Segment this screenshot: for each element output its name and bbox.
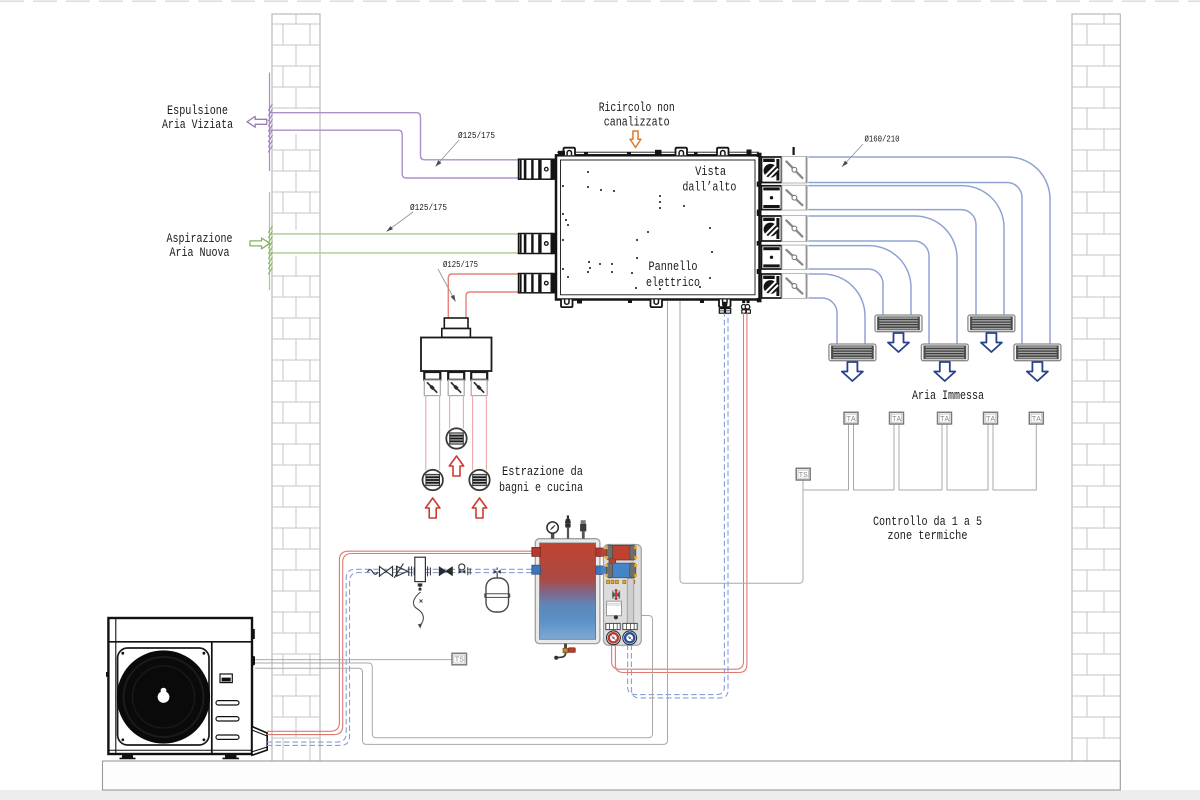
extract valve bathroom 1 xyxy=(423,470,443,490)
zone thermostat TA5 xyxy=(1029,412,1043,424)
supply duct 2 (blue) xyxy=(808,186,1004,315)
AHU top mounting brackets xyxy=(564,148,729,156)
flow meter cold (blue) xyxy=(623,631,637,645)
thermostat bus TS2-TA1 xyxy=(803,424,849,490)
shut-off valve V1 xyxy=(380,566,393,577)
distribution box outlet 3 xyxy=(471,372,487,396)
supply air arrow 2 (blue, down) xyxy=(888,333,909,352)
tank air vent valve xyxy=(565,515,571,538)
svg-text:Espulsione: Espulsione xyxy=(167,103,228,118)
supply air arrow 3 (blue, down) xyxy=(934,362,955,381)
AHU top tabs xyxy=(558,147,795,155)
supply duct 3 (blue) xyxy=(808,216,957,344)
extract branch duct lines xyxy=(426,395,487,470)
extract air arrow left (red, up) xyxy=(426,498,440,518)
supply grille 3 xyxy=(921,344,968,361)
supply grille 2 xyxy=(875,315,922,332)
svg-text:zone termiche: zone termiche xyxy=(888,528,968,543)
bottom gray band xyxy=(0,790,1200,800)
flange pair A xyxy=(412,566,415,576)
flex connector (tilde) xyxy=(368,570,378,575)
supply air arrow 4 (blue, down) xyxy=(981,333,1002,352)
thermostat TS2 (zones) xyxy=(796,468,810,480)
espulsione arrow (purple, left) xyxy=(247,116,267,127)
ricircolo arrow (orange, down) xyxy=(630,131,641,148)
extraction distribution box xyxy=(421,318,492,371)
svg-text:TA: TA xyxy=(846,416,856,424)
shut-off valve V2 (closed) xyxy=(439,567,452,576)
leader line supply duct label xyxy=(842,144,863,167)
tank right ports xyxy=(596,548,604,574)
extraction duct (red) to distribution box xyxy=(448,274,518,318)
ceiling dashed line xyxy=(0,0,1200,2)
svg-text:TS: TS xyxy=(799,472,809,480)
AHU top flange line xyxy=(557,151,759,153)
leader line exhaust duct label xyxy=(436,140,460,167)
heat pump right-side fittings xyxy=(106,629,255,677)
AHU rivet dots xyxy=(562,167,717,290)
AHU bottom hydronic bracket with port xyxy=(719,300,731,314)
heat pump side bracket xyxy=(252,727,267,756)
svg-text:dall’alto: dall’alto xyxy=(682,179,736,194)
svg-text:Aria Nuova: Aria Nuova xyxy=(170,245,230,260)
filter blow-down and drain hose xyxy=(413,583,423,628)
control wire AHU to TS2 xyxy=(680,301,803,583)
svg-text:Ø160/210: Ø160/210 xyxy=(865,134,900,145)
AHU supply connector 3 with damper xyxy=(757,212,808,246)
svg-text:Pannello: Pannello xyxy=(649,259,698,274)
fresh air duct (green) to wall xyxy=(270,234,519,253)
check valve xyxy=(394,564,409,578)
pump group union nuts xyxy=(606,623,637,629)
flow meter hot (red) xyxy=(607,631,621,645)
AHU exhaust connector (left top) xyxy=(519,159,556,180)
heat pump fan xyxy=(117,650,210,743)
svg-text:TA: TA xyxy=(892,416,902,424)
tank drain valve xyxy=(554,644,575,660)
expansion vessel xyxy=(484,567,510,612)
extract valve kitchen (middle) xyxy=(446,428,466,448)
supply duct 1 (blue) xyxy=(808,157,1050,344)
AHU bottom tabs xyxy=(577,300,704,304)
svg-text:bagni e cucina: bagni e cucina xyxy=(499,480,583,495)
AHU coil return pipe (blue dashed pair) xyxy=(628,313,728,698)
tank left ports xyxy=(532,547,541,574)
svg-text:elettrico: elettrico xyxy=(646,275,700,290)
left brick wall xyxy=(272,14,320,761)
pump group right riser xyxy=(627,579,633,625)
AHU bottom mounting brackets xyxy=(561,300,662,308)
zone thermostat TA2 xyxy=(890,412,904,424)
AHU extract connector (left bottom) xyxy=(519,273,556,294)
right brick wall xyxy=(1072,14,1120,761)
extract valve bathroom 2 xyxy=(469,470,489,490)
svg-text:Ricircolo non: Ricircolo non xyxy=(599,100,675,115)
zone thermostat TA3 xyxy=(938,412,952,424)
control wire heat pump to TS1 xyxy=(255,659,452,661)
motorised valve xyxy=(459,564,471,575)
zone thermostat TA1 xyxy=(844,412,858,424)
heat pump outdoor unit xyxy=(108,618,252,754)
pump group circulator body xyxy=(607,601,622,619)
svg-text:Vista: Vista xyxy=(695,164,726,179)
zone thermostat TA4 xyxy=(984,412,998,424)
thermostat bus TA3-TA4 xyxy=(947,424,988,490)
control wire heat pump to AHU xyxy=(255,301,668,744)
pump group unions (yellow) xyxy=(607,580,635,583)
svg-text:canalizzato: canalizzato xyxy=(604,115,670,130)
heat pump label plate xyxy=(220,674,232,683)
supply grille 5 xyxy=(1014,344,1061,361)
AHU coil flow pipe (red pair) xyxy=(612,313,747,673)
svg-text:TS: TS xyxy=(455,657,465,665)
AHU supply connector 5 with damper xyxy=(757,270,808,303)
leader line fresh duct label xyxy=(387,212,414,232)
distribution box outlet 1 xyxy=(424,372,440,396)
flange pair B xyxy=(428,566,431,576)
pump group cold exchanger block xyxy=(601,563,637,578)
heat pump flow pipe (red pair) xyxy=(267,551,533,734)
heat pump return pipe (blue dashed pair) xyxy=(267,569,533,745)
AHU bottom coil connections xyxy=(742,300,751,314)
dirt separator (filter) xyxy=(415,557,426,581)
extract air arrow right (red, up) xyxy=(472,498,486,518)
control wire heat pump to pump group xyxy=(255,616,653,738)
pump group base plate xyxy=(604,545,642,646)
svg-text:Estrazione da: Estrazione da xyxy=(502,464,583,479)
supply grille 4 xyxy=(968,315,1015,332)
extract air arrow middle (red, up) xyxy=(449,456,463,476)
svg-text:Aria Viziata: Aria Viziata xyxy=(162,117,233,132)
supply duct 4 (blue) xyxy=(808,246,911,315)
buffer tank (puffer) xyxy=(535,539,600,644)
thermostat bus TA2-TA3 xyxy=(899,424,942,490)
heat pump side louvres xyxy=(216,701,239,740)
supply duct 5 (blue) xyxy=(808,274,865,344)
thermostat bus TA1-TA2 xyxy=(854,424,895,490)
exhaust duct (purple) to wall xyxy=(270,113,519,178)
svg-text:Aria Immessa: Aria Immessa xyxy=(912,388,984,403)
AHU supply connector 2 with damper xyxy=(757,182,808,214)
AHU fresh-air connector (left middle) xyxy=(519,233,556,254)
thermostat bus TA4-TA5 xyxy=(993,424,1036,490)
svg-text:TA: TA xyxy=(986,416,996,424)
svg-text:Controllo da 1 a 5: Controllo da 1 a 5 xyxy=(873,514,982,529)
supply grille 1 xyxy=(829,344,876,361)
supply air arrow 1 (blue, down) xyxy=(842,362,863,381)
leader line extract duct label xyxy=(438,269,456,302)
wall sleeve green (exterior grille line + hatch) xyxy=(268,192,272,290)
AHU ventilation unit body xyxy=(556,155,760,299)
distribution box outlet 2 xyxy=(448,372,464,396)
svg-text:Aspirazione: Aspirazione xyxy=(167,231,233,246)
svg-text:TA: TA xyxy=(940,416,950,424)
AHU supply connector 1 with damper xyxy=(757,153,808,187)
aspirazione arrow (green, right) xyxy=(250,238,270,249)
tank pressure gauge xyxy=(547,522,558,539)
wall sleeve purple (exterior grille line + hatch) xyxy=(268,73,272,172)
supply air arrow 5 (blue, down) xyxy=(1027,362,1048,381)
AHU supply connector 4 with damper xyxy=(757,241,808,273)
svg-text:Ø125/175: Ø125/175 xyxy=(443,259,478,270)
pump group valve xyxy=(612,589,620,600)
svg-text:Ø125/175: Ø125/175 xyxy=(458,130,495,141)
pump group mixing port xyxy=(609,558,616,565)
tank top fitting xyxy=(580,520,586,539)
floor slab xyxy=(103,761,1121,790)
pump group hot exchanger block xyxy=(601,545,637,560)
thermostat TS1 (heat pump) xyxy=(452,653,467,665)
svg-text:TA: TA xyxy=(1032,416,1042,424)
heat pump feet xyxy=(120,754,240,759)
heat pump fan guard screws xyxy=(121,652,205,741)
svg-text:Ø125/175: Ø125/175 xyxy=(410,202,447,213)
